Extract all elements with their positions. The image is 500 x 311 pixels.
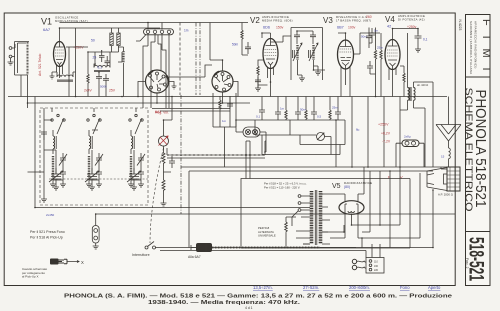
wire rail y28 xyxy=(60,28,161,97)
wire V2 plate to IF2 xyxy=(271,36,292,42)
mains switch contact 1 xyxy=(145,246,148,249)
IF2 primary cap xyxy=(294,31,300,44)
svg-text:6D6: 6D6 xyxy=(263,26,270,30)
tube V4 plate xyxy=(388,40,398,47)
band switch enclosure dashed xyxy=(40,108,148,205)
title block divider FIMI/PHONOLA xyxy=(466,76,491,78)
wire socket V1 right to ground xyxy=(169,82,177,90)
resistor R10 below pot xyxy=(162,146,165,166)
capacitor C21 beside pot xyxy=(169,156,175,168)
svg-text:6B7: 6B7 xyxy=(337,26,344,30)
wire V3 pins xyxy=(341,67,350,86)
svg-text:(80): (80) xyxy=(344,185,350,189)
phone plug tip xyxy=(59,259,68,263)
electrolytic C40 cells xyxy=(405,141,409,145)
tube V3 grids xyxy=(340,49,352,52)
capacitor C8 near socket2 xyxy=(245,42,251,54)
output transformer T3 primary xyxy=(408,88,410,101)
wire rail y144 xyxy=(300,120,345,145)
loudspeaker cone xyxy=(427,168,447,191)
socket V1 pin 2 xyxy=(156,72,159,75)
svg-text:25V: 25V xyxy=(109,89,116,93)
pickup plug connector xyxy=(196,243,212,252)
svg-text:42: 42 xyxy=(387,25,391,29)
socket V1 pin 1 xyxy=(149,74,152,77)
voltage selector box xyxy=(366,258,384,274)
wire R1 R2 top to rail xyxy=(112,28,119,52)
resistor R30 xyxy=(285,110,287,120)
svg-text:100v: 100v xyxy=(348,26,356,30)
switch S1 contact 2 xyxy=(153,30,156,33)
wire rail y154 xyxy=(262,135,340,155)
coil socket pin a xyxy=(215,75,218,78)
svg-text:DI POTENZA (42): DI POTENZA (42) xyxy=(398,18,425,22)
svg-text:160: 160 xyxy=(374,265,379,268)
wire rail y120 xyxy=(236,119,345,121)
svg-text:15: 15 xyxy=(441,155,445,159)
wire junctions xyxy=(27,22,434,249)
switch S1 contact 4 xyxy=(167,30,170,33)
mains switch lever xyxy=(148,242,155,247)
antenna terminal A2 xyxy=(9,47,12,50)
mains plug pin 2 xyxy=(352,265,356,269)
svg-text:2x4V: 2x4V xyxy=(84,89,92,93)
svg-text:UNIVERSALE: UNIVERSALE xyxy=(258,234,276,238)
resistor R5b in box xyxy=(219,100,221,112)
dial lamp 1 xyxy=(245,129,250,134)
wire rail y103 xyxy=(28,102,251,104)
svg-text:Alla 6A7: Alla 6A7 xyxy=(188,255,201,259)
padder capacitor C4 xyxy=(96,72,102,84)
wire rail y135 xyxy=(255,120,316,135)
capacitor C20 left column xyxy=(41,132,47,140)
svg-text:V5: V5 xyxy=(332,183,341,190)
T1 secondary taps xyxy=(322,194,330,244)
wire antenna terminal to coil xyxy=(12,56,15,58)
tube V1 grids xyxy=(55,50,64,56)
svg-text:Aperto: Aperto xyxy=(428,285,441,290)
choke coil L7 xyxy=(122,51,124,63)
mains plug pin 1 xyxy=(352,259,356,263)
wire osc section verticals xyxy=(88,50,119,74)
phono jack socket xyxy=(92,226,99,244)
wire AVC rail y96.5 xyxy=(8,96,447,98)
wire socket2 connections xyxy=(210,23,238,104)
wire rails mid low xyxy=(181,167,455,171)
tube V5 plates xyxy=(345,204,358,211)
svg-text:0,5: 0,5 xyxy=(317,115,322,119)
wire power box inner rails xyxy=(303,171,370,244)
resistor R31 xyxy=(305,110,307,120)
wire V1 pins down xyxy=(57,65,63,78)
caption band labels blue xyxy=(253,285,441,290)
phone plug arrow xyxy=(67,261,79,263)
svg-text:Per il 521 Presa Fono: Per il 521 Presa Fono xyxy=(30,230,65,234)
tone potentiometer P2 xyxy=(317,133,325,141)
selector contact 160 xyxy=(369,264,372,267)
loop antenna coil L1 winding xyxy=(27,42,29,75)
wire coil L1 down to band switch xyxy=(27,75,29,108)
svg-text:al Pick-Up X: al Pick-Up X xyxy=(22,275,39,279)
IF2 secondary coil xyxy=(312,45,314,60)
wire x122 down xyxy=(118,47,124,97)
oscillator cathode coil L6 under V1 xyxy=(57,75,73,77)
separator dash-dot line x196 xyxy=(195,23,197,96)
wave-band switch bar S1 xyxy=(144,29,174,35)
svg-text:0,1: 0,1 xyxy=(256,115,261,119)
wire R14 xyxy=(400,66,404,97)
resistor R6 V2 cathode xyxy=(257,66,259,77)
selector contact 110 xyxy=(369,260,372,263)
svg-text:V3: V3 xyxy=(323,16,333,25)
wire aerial to rail xyxy=(448,97,450,125)
wire V2 pins xyxy=(268,65,274,82)
svg-text:260: 260 xyxy=(366,15,372,19)
power transformer T1 secondary winding xyxy=(319,191,323,244)
power chassis box xyxy=(241,179,410,249)
resistor R8 xyxy=(374,50,376,61)
wire rail y214 xyxy=(96,213,455,215)
tube V5 filament xyxy=(348,211,354,213)
wire column x375 xyxy=(369,28,376,97)
title block divider PHONOLA/518 xyxy=(466,231,491,233)
wire osc bottom joins xyxy=(88,84,106,97)
svg-text:SARONNO (FABBRICA ITALIANA: SARONNO (FABBRICA ITALIANA xyxy=(469,21,473,74)
coil socket inner leads xyxy=(216,76,229,86)
T1 tap selector contact 1 xyxy=(298,195,301,198)
wire pickup cable continues xyxy=(320,247,356,249)
wire V5 pins xyxy=(330,211,362,248)
svg-text:2x450: 2x450 xyxy=(46,213,55,217)
tube V2 envelope xyxy=(263,39,278,69)
tube V3 cathode xyxy=(342,63,349,69)
capacitor C13 xyxy=(369,28,375,43)
resistor R14 V4 cathode xyxy=(403,73,405,85)
tube V1 plate xyxy=(56,42,64,48)
wire switch drop bends xyxy=(143,42,169,70)
wire V2 top cap xyxy=(262,33,271,39)
tube V5 envelope xyxy=(339,201,364,215)
capacitor C12 xyxy=(366,31,372,43)
tube V3 plate and diodes xyxy=(340,40,351,61)
tuning capacitor CV2 xyxy=(85,168,99,190)
aerial lead coil xyxy=(449,141,451,167)
resistor R3 vertical xyxy=(87,74,89,86)
oscillator coil L2 xyxy=(94,66,110,68)
coil socket keyway arc xyxy=(215,72,220,76)
pickup cable braid xyxy=(212,247,320,249)
wire socket V1 to plate line xyxy=(138,82,157,104)
capacitor C2 xyxy=(99,50,105,62)
wire rail y33 V4 xyxy=(360,32,380,34)
loudspeaker voice coil xyxy=(444,174,448,184)
wire V4 plate to T3 xyxy=(393,29,419,111)
svg-text:50m: 50m xyxy=(300,108,306,112)
svg-text:25m: 25m xyxy=(332,106,338,110)
socket V1 keyway arcs xyxy=(149,71,154,75)
capacitor C33 xyxy=(311,112,317,120)
svg-text:V4: V4 xyxy=(385,15,395,24)
wire V5 output to filter xyxy=(352,171,381,225)
wire rails x155-230 xyxy=(152,97,230,112)
svg-text:27÷52m.: 27÷52m. xyxy=(303,285,319,290)
wire mains rail connections xyxy=(155,248,433,258)
wire dial lamps xyxy=(236,120,266,152)
shielded cable braid to grid xyxy=(167,154,265,156)
mains switch contact 2 xyxy=(153,246,156,249)
tube V1 cathode xyxy=(56,60,63,67)
selector contact 220 xyxy=(369,268,372,271)
ground under V1 xyxy=(50,72,57,79)
capacitor C8b in box xyxy=(227,98,233,112)
wire T3 secondary to speaker xyxy=(414,82,434,167)
loudspeaker magnet hatch xyxy=(447,167,460,191)
title block outer box xyxy=(466,15,491,286)
separator dashed line x180 xyxy=(179,23,181,96)
band switch unit 3 coils L5 xyxy=(128,114,145,187)
band switch unit 1 coils L3 xyxy=(50,114,67,187)
svg-text:0,1: 0,1 xyxy=(98,66,103,70)
resistor R5 near socket2 xyxy=(241,30,243,41)
wire V4 top cap xyxy=(392,29,394,40)
wire pot top xyxy=(164,97,173,137)
T1 tap selector contact 2 xyxy=(298,202,301,205)
capacitor C31 xyxy=(275,112,281,120)
wire osc extra verticals xyxy=(66,47,122,97)
tuning capacitor CV3 xyxy=(127,168,141,190)
IF transformer T2 left wall xyxy=(290,28,292,81)
svg-text:110: 110 xyxy=(374,261,378,264)
svg-text:5000: 5000 xyxy=(100,85,107,89)
IF2 secondary cap xyxy=(310,31,316,44)
capacitor C34 xyxy=(335,112,341,120)
jack contact 1 xyxy=(94,229,98,233)
svg-text:SCHEMA ELETTRICO: SCHEMA ELETTRICO xyxy=(463,88,474,212)
tube socket V1 bottom view xyxy=(146,70,169,93)
svg-text:1ª BASSA FREQ. (6B7): 1ª BASSA FREQ. (6B7) xyxy=(336,19,371,23)
oscillator coil L2 core xyxy=(94,71,110,72)
svg-text:200÷600m.: 200÷600m. xyxy=(349,285,370,290)
svg-text:PHONOLA (S. A. FIMI). — Mod. 5: PHONOLA (S. A. FIMI). — Mod. 518 e 521 —… xyxy=(64,294,452,300)
loop antenna coil L1 frame xyxy=(15,42,30,76)
svg-text:4 d 1: 4 d 1 xyxy=(245,306,253,310)
socket V1 pin 6 xyxy=(150,86,153,89)
coil socket pin b xyxy=(221,73,224,76)
svg-text:V2: V2 xyxy=(250,16,260,25)
resistor R32 xyxy=(329,110,331,120)
wire switch drops xyxy=(148,23,169,56)
IF2 secondary trimmer arrow xyxy=(309,43,318,61)
band switch unit 2 coils L4 xyxy=(86,114,103,187)
dropper resistor R40 xyxy=(285,222,288,233)
wire V5 anode feeds xyxy=(330,167,364,201)
svg-text:1m: 1m xyxy=(280,107,285,111)
wire jack to rail xyxy=(95,214,97,226)
coil unit socket bottom view xyxy=(212,71,233,92)
power transformer T1 primary winding xyxy=(310,191,314,244)
tube V4 envelope xyxy=(385,40,400,70)
socket V1 pin 3 xyxy=(162,75,165,78)
ground IF2 xyxy=(298,72,322,81)
wire gang ganged dashes xyxy=(49,178,148,180)
capacitor C30 xyxy=(259,110,265,120)
IF transformer T2 top xyxy=(291,27,323,29)
resistor R11 lower xyxy=(162,180,165,192)
svg-text:X: X xyxy=(81,260,84,265)
svg-text:Fasc. 2: Fasc. 2 xyxy=(465,258,469,269)
wire plate V1 socket to socket2 xyxy=(169,65,213,77)
tube V2 plate xyxy=(266,39,276,46)
wire speaker to rails xyxy=(433,167,447,248)
wire rails mid verticals xyxy=(189,127,250,248)
svg-text:V1: V1 xyxy=(41,17,52,27)
coil socket pin e xyxy=(223,88,226,91)
IF2 primary trimmer arrow xyxy=(293,43,302,61)
svg-text:6A7: 6A7 xyxy=(43,27,51,32)
wire long verticals to lower rails xyxy=(336,97,400,168)
svg-text:MEDIA FREQ. (6D6): MEDIA FREQ. (6D6) xyxy=(262,19,293,23)
svg-text:Per il 521 = 110 -160 - 220 V.: Per il 521 = 110 -160 - 220 V. xyxy=(264,185,300,189)
T1 selector wiper xyxy=(292,211,298,226)
wire R5 xyxy=(242,23,248,56)
svg-text:APPARECCHI RADIOFONICI): APPARECCHI RADIOFONICI) xyxy=(474,21,478,69)
svg-text:0,1: 0,1 xyxy=(423,38,428,42)
wire coil frame bottom xyxy=(15,75,28,97)
resistor R9 xyxy=(380,50,382,62)
svg-text:50m: 50m xyxy=(361,35,367,39)
svg-text:Ant. 521 Telaio: Ant. 521 Telaio xyxy=(38,54,42,76)
switch S1 contact 3 xyxy=(160,30,163,33)
wire R9 xyxy=(380,33,382,97)
svg-text:+250V: +250V xyxy=(73,46,84,50)
switch S1 contact 1 xyxy=(146,30,149,33)
ground at antenna terminal xyxy=(8,58,14,65)
capacitor C15 low xyxy=(367,61,376,74)
wire IF2 leads down xyxy=(297,31,325,75)
svg-text:1m: 1m xyxy=(184,29,189,33)
svg-text:13,5÷27m.: 13,5÷27m. xyxy=(253,285,273,290)
tube V3 envelope xyxy=(338,40,354,69)
grid leak box under coil socket xyxy=(213,93,236,127)
svg-text:A.P. 2000 Ω: A.P. 2000 Ω xyxy=(438,193,453,197)
antenna terminal A1 xyxy=(9,55,12,58)
phone plug body xyxy=(50,259,59,265)
tube V1 envelope xyxy=(54,42,66,67)
coil socket pin d xyxy=(228,84,231,87)
wire rail y207 xyxy=(35,97,310,208)
capacitor C9 xyxy=(255,77,261,85)
socket V1 inner leads xyxy=(150,75,164,88)
IF transformer T2 right wall xyxy=(322,28,324,81)
switch S1 lever xyxy=(136,35,146,42)
ground C14 xyxy=(415,46,421,52)
wire top rail y22.5 xyxy=(60,22,249,24)
svg-text:50: 50 xyxy=(91,39,95,43)
wire band box internals xyxy=(28,108,137,196)
separator dash-dot x181 lower xyxy=(180,95,182,214)
capacitor C3 xyxy=(105,56,111,67)
power transformer T1 core xyxy=(315,190,317,245)
tube V4 grids xyxy=(387,50,398,56)
tube V2 cathode xyxy=(266,59,275,65)
aerial symbol xyxy=(436,125,461,142)
svg-text:1938-1940. — Media frequenza:: 1938-1940. — Media frequenza: 470 kHz. xyxy=(148,300,301,306)
svg-text:150v: 150v xyxy=(276,26,284,30)
ground jack xyxy=(93,243,99,249)
svg-text:220: 220 xyxy=(374,269,379,272)
svg-text:-7,2V: -7,2V xyxy=(382,140,391,144)
tone pot arrow xyxy=(317,133,324,140)
tube V2 grids xyxy=(265,50,277,56)
T1 tap selector contact 3 xyxy=(298,209,301,212)
oscillator resistor R2 xyxy=(117,33,120,46)
coil socket pin f xyxy=(215,86,218,89)
wire drops from switch into box xyxy=(143,70,169,108)
wire V3 pins to rail xyxy=(341,76,350,97)
svg-text:50m: 50m xyxy=(232,43,239,47)
wire V4 pins xyxy=(389,68,396,97)
pickup plug detail xyxy=(191,243,206,252)
wire C40 xyxy=(396,143,424,167)
volume potentiometer P1 xyxy=(159,136,169,146)
svg-text:Fono: Fono xyxy=(400,285,410,290)
IF2 primary coil xyxy=(296,45,298,60)
wire extra drop x158 xyxy=(158,35,161,70)
oscillator grid resistor R1 xyxy=(110,33,113,46)
output transformer T3 core xyxy=(410,87,411,101)
border frame of schematic sheet xyxy=(4,13,455,286)
svg-text:25m: 25m xyxy=(377,46,383,50)
loudspeaker magnet block xyxy=(447,167,460,191)
svg-text:+250V: +250V xyxy=(378,123,389,127)
svg-text:F I M I: F I M I xyxy=(480,19,492,74)
svg-text:+8,2V: +8,2V xyxy=(381,132,391,136)
wire R10 R11 xyxy=(164,166,172,203)
wire R6 xyxy=(258,60,264,88)
padder capacitor C5 xyxy=(103,74,109,86)
svg-text:1m: 1m xyxy=(374,29,379,33)
wire V3 top cap xyxy=(338,33,346,40)
socket V1 pin 4 xyxy=(164,83,167,86)
mechanical link pot to switch dashed xyxy=(150,148,164,243)
output transformer T3 secondary xyxy=(414,88,416,101)
wire power verticals xyxy=(362,167,420,248)
ground V2 cathode xyxy=(255,85,268,91)
mains cord xyxy=(357,261,366,268)
tube V4 cathode xyxy=(388,60,397,69)
T1 primary taps xyxy=(296,196,310,244)
capacitor C32 xyxy=(295,112,301,120)
wire V2 V3 bias column drops xyxy=(262,82,338,112)
svg-text:25: 25 xyxy=(93,56,97,60)
potentiometer P1 red arrow xyxy=(159,136,169,146)
socket V1 pin 5 xyxy=(158,88,161,91)
jack contact 2 xyxy=(94,236,98,240)
dial lamp 2 xyxy=(252,129,257,134)
ground left column xyxy=(41,196,47,202)
wire R40 xyxy=(286,217,296,248)
wire under braid xyxy=(167,141,266,158)
wire V3 plate right xyxy=(354,33,361,54)
wire V1 top cap xyxy=(59,28,61,42)
svg-text:2x8µ: 2x8µ xyxy=(404,135,411,139)
capacitor C14 right of V4 xyxy=(415,29,422,47)
svg-text:N.4223: N.4223 xyxy=(458,20,462,31)
separator dash-dot line x200 xyxy=(199,23,201,96)
wire box internals xyxy=(220,96,230,127)
svg-text:alt. 420 Ω: alt. 420 Ω xyxy=(417,83,428,87)
svg-text:Interruttore: Interruttore xyxy=(132,253,150,257)
